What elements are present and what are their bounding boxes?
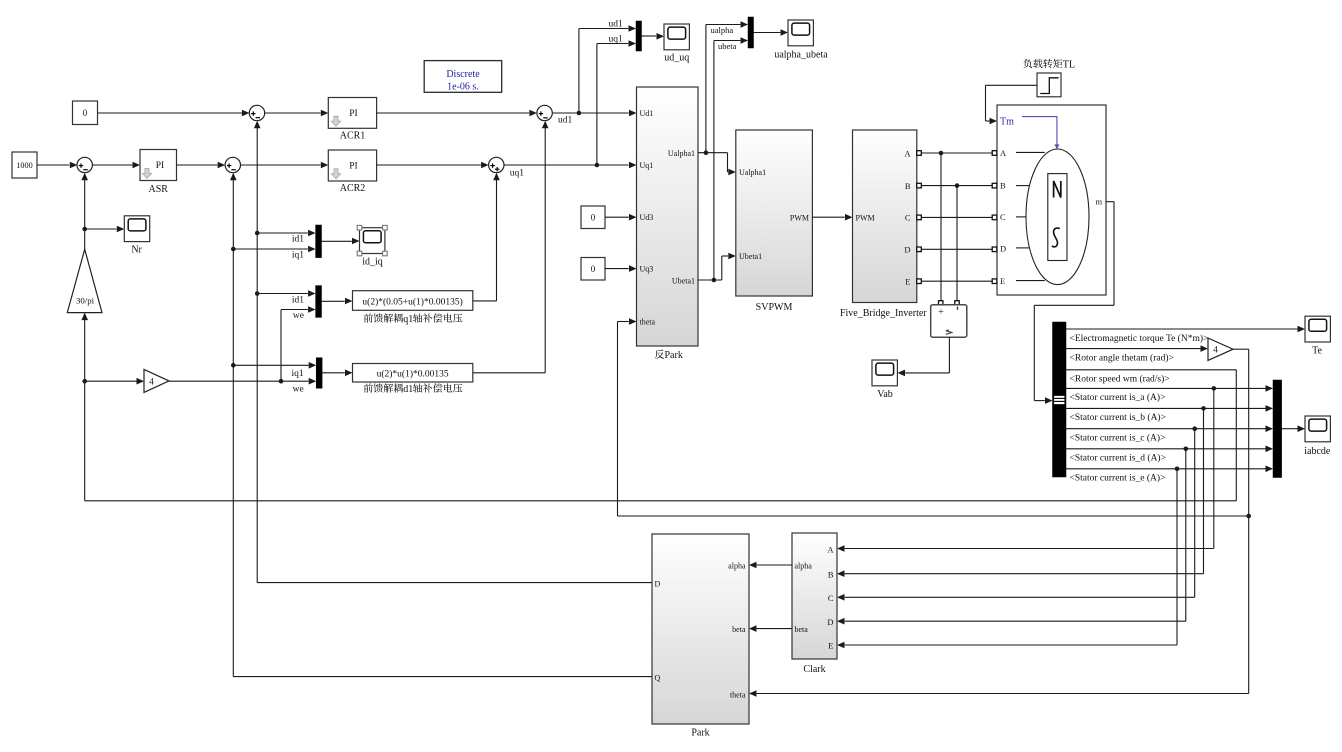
svg-text:Tm: Tm: [1000, 117, 1014, 128]
svg-text:Five_Bridge_Inverter: Five_Bridge_Inverter: [840, 308, 927, 319]
wire mux to scope ud_uq: [642, 33, 665, 40]
annotation Discrete 1e-06 s.: [424, 61, 502, 93]
svg-text:id1: id1: [292, 295, 304, 305]
wires inverter phases A-E to motor: [921, 153, 992, 281]
fcn block d-axis compensation: [353, 364, 473, 383]
svg-text:4: 4: [1213, 345, 1218, 355]
wire bus out stator current is_b: [837, 405, 1273, 577]
sum junction (id* - id): [249, 105, 264, 120]
wire Ubeta1 out: [698, 253, 736, 280]
svg-text:D: D: [1000, 243, 1006, 253]
subsystem Clark: [792, 533, 837, 675]
wire 1000 to speed sum: [37, 162, 77, 169]
svg-text:PI: PI: [156, 161, 164, 171]
svg-text:iabcde: iabcde: [1304, 446, 1331, 457]
wire fcn1 to sum uq1: [473, 173, 500, 301]
svg-text:ACR1: ACR1: [340, 131, 366, 142]
svg-text:A: A: [1000, 148, 1007, 158]
motor internal stubs: [1016, 152, 1045, 280]
bus signal labels: [1070, 333, 1209, 484]
constant block 1000 (speed reference): [12, 152, 37, 178]
subsystem Five_Bridge_Inverter: [840, 130, 927, 319]
node speed feedback branch to Nr: [82, 226, 124, 233]
mux for fcn q-axis: [316, 286, 322, 318]
svg-text:B: B: [905, 181, 911, 191]
svg-text:beta: beta: [732, 625, 746, 634]
sum junction ud1 (+ -): [537, 105, 573, 125]
svg-text:<Rotor angle thetam (rad)>: <Rotor angle thetam (rad)>: [1070, 352, 1174, 363]
scope id_iq (selected): [357, 225, 387, 267]
svg-text:ud1: ud1: [558, 116, 573, 126]
wire bus out Te: [1066, 326, 1305, 333]
PI controller ASR: [140, 150, 177, 196]
gain 4 (pole pairs, left): [144, 369, 169, 392]
node id1 to mux fcn q: [255, 290, 316, 305]
wire fcn2 to sum ud1: [473, 121, 549, 373]
wire 30/pi to speed sum: [81, 173, 88, 250]
wire Park Q output feedback (iq1): [230, 173, 652, 677]
svg-text:+: +: [938, 307, 944, 318]
svg-text:Uq1: Uq1: [640, 161, 654, 170]
svg-text:TL: TL: [1063, 59, 1075, 70]
svg-text:0: 0: [83, 108, 88, 118]
wire Ualpha1 out: [698, 153, 736, 176]
bus selector: [1053, 322, 1067, 477]
magnet N/S bar: [1048, 174, 1067, 261]
node theta branch to invPark: [618, 318, 1251, 518]
constant block 0 (d-axis current reference): [73, 101, 98, 125]
node we branch up to q-axis mux: [279, 306, 316, 383]
node iq1 to mux fcn d: [231, 362, 316, 379]
svg-text:D: D: [827, 617, 833, 627]
wire sum to ASR: [92, 162, 140, 169]
subsystem SVPWM: [736, 130, 813, 313]
svg-text:Ubeta1: Ubeta1: [739, 252, 762, 261]
wire 0 to Ud3: [605, 214, 637, 221]
svg-text:alpha: alpha: [795, 562, 813, 571]
constant 0 for Ud3: [581, 206, 605, 229]
svg-text:C: C: [1000, 212, 1006, 222]
svg-text:B: B: [828, 569, 834, 579]
svg-text:Ualpha1: Ualpha1: [739, 168, 766, 177]
wire Clark beta to Park: [749, 625, 792, 632]
wire mux to fcn2: [322, 370, 352, 377]
svg-text:<Rotor speed wm (rad/s)>: <Rotor speed wm (rad/s)>: [1070, 374, 1170, 385]
node uq1 branch to mux: [595, 35, 636, 168]
svg-text:<Stator current is_b (A)>: <Stator current is_b (A)>: [1070, 412, 1166, 423]
svg-text:id1: id1: [292, 235, 304, 245]
label qiankui jieou d1: [364, 383, 463, 394]
svg-text:Clark: Clark: [803, 664, 825, 675]
motor block PMSM: [997, 105, 1106, 295]
svg-text:Te: Te: [1312, 346, 1322, 357]
wire bus out stator current is_d: [837, 446, 1273, 625]
wire ASR to sum acr2: [177, 162, 226, 169]
svg-text:0: 0: [591, 213, 596, 223]
svg-text:Vab: Vab: [877, 389, 893, 400]
svg-text:0: 0: [591, 264, 596, 274]
svg-text:<Stator current is_c (A)>: <Stator current is_c (A)>: [1070, 433, 1166, 444]
wire motor m output to bus selector: [1034, 202, 1114, 404]
svg-text:Uq3: Uq3: [640, 265, 654, 274]
svg-text:<Stator current is_d (A)>: <Stator current is_d (A)>: [1070, 453, 1166, 464]
svg-text:PWM: PWM: [856, 213, 875, 222]
svg-text:D: D: [904, 245, 910, 255]
mux id_iq: [316, 225, 322, 258]
svg-text:ubeta: ubeta: [718, 41, 737, 51]
node iq1 to mux id_iq: [231, 246, 316, 261]
sum junction speed error (+ -): [77, 157, 92, 172]
svg-text:<Electromagnetic torque Te (N*: <Electromagnetic torque Te (N*m)>: [1070, 333, 1209, 344]
wire step to motor Tm: [986, 85, 1038, 124]
svg-text:iq1: iq1: [292, 251, 304, 261]
scope Nr: [124, 216, 149, 256]
svg-text:Q: Q: [655, 674, 661, 683]
wire bus out stator current is_e: [837, 466, 1273, 649]
scope Vab (flipped): [872, 360, 897, 400]
wire ACR1 to sum ud1: [377, 110, 537, 117]
node ud1 branch to mux: [577, 20, 636, 116]
svg-text:q1: q1: [403, 314, 413, 325]
wire gain4 theta distribution: [749, 349, 1249, 697]
svg-text:ualpha_ubeta: ualpha_ubeta: [774, 50, 828, 61]
svg-text:E: E: [1000, 276, 1005, 286]
svg-text:4: 4: [149, 376, 154, 386]
svg-text:1000: 1000: [16, 161, 32, 170]
svg-text:1e-06 s.: 1e-06 s.: [447, 82, 479, 93]
svg-text:d1: d1: [403, 384, 413, 395]
gain 30/pi: [67, 249, 102, 312]
mux for fcn d-axis: [316, 358, 322, 389]
node tap phase B for Vab: [955, 183, 960, 300]
mux ud_uq: [636, 21, 642, 51]
wire Park D output feedback (id1): [254, 121, 652, 583]
svg-text:<Stator current is_a (A)>: <Stator current is_a (A)>: [1070, 392, 1166, 403]
motor rotor ellipse: [1026, 149, 1089, 285]
svg-text:30/pi: 30/pi: [76, 296, 95, 306]
svg-text:PI: PI: [349, 109, 357, 119]
wire sum to ACR1: [265, 110, 329, 117]
svg-text:Ud1: Ud1: [640, 109, 654, 118]
wire sum to ACR2: [241, 162, 329, 169]
svg-text:we: we: [293, 385, 304, 395]
wire bus out stator current is_a: [837, 385, 1273, 552]
svg-text:C: C: [828, 593, 834, 603]
wire ACR2 to sum uq1: [377, 162, 489, 169]
svg-text:C: C: [905, 213, 911, 223]
sum junction uq1 (+ +): [489, 157, 525, 178]
svg-text:E: E: [905, 276, 910, 286]
node id1 to mux id_iq: [255, 230, 316, 245]
wire mux to scope id_iq: [322, 238, 360, 245]
svg-text:u(2)*u(1)*0.00135: u(2)*u(1)*0.00135: [377, 369, 449, 380]
svg-text:alpha: alpha: [728, 562, 746, 571]
scope ualpha_ubeta: [774, 20, 828, 61]
PI controller ACR1: [328, 98, 376, 142]
svg-text:beta: beta: [795, 625, 809, 634]
wire sum ud1 to invPark Ud1: [552, 110, 636, 117]
svg-text:E: E: [828, 641, 833, 651]
svg-text:A: A: [827, 545, 834, 555]
wire bus out stator current is_c: [837, 425, 1273, 600]
fcn block q-axis compensation: [353, 291, 473, 311]
wire 0 to Uq3: [605, 265, 637, 272]
mux ualpha_ubeta: [748, 17, 754, 48]
svg-text:uq1: uq1: [609, 35, 624, 45]
svg-text:D: D: [655, 580, 661, 589]
svg-text:theta: theta: [640, 318, 656, 327]
node ualpha branch up: [704, 21, 748, 155]
svg-text:B: B: [1000, 180, 1006, 190]
svg-text:we: we: [293, 311, 304, 321]
svg-text:Park: Park: [665, 350, 683, 361]
motor input ports: [992, 151, 997, 284]
label 反Park: [655, 350, 683, 361]
svg-text:id_iq: id_iq: [362, 257, 383, 268]
wire gain4 to mux we (d-axis): [169, 378, 316, 395]
svg-text:iq1: iq1: [292, 369, 304, 379]
scope iabcde: [1304, 416, 1331, 457]
svg-text:m: m: [1096, 197, 1103, 207]
label 负载转矩TL: [1023, 59, 1075, 70]
svg-text:Discrete: Discrete: [446, 69, 480, 80]
svg-text:uq1: uq1: [510, 169, 525, 179]
wire Vab to scope: [898, 337, 950, 376]
svg-text:u(2)*(0.05+u(1)*0.00135): u(2)*(0.05+u(1)*0.00135): [362, 297, 462, 308]
sum junction (iq* - iq): [225, 157, 240, 172]
gain 4 (right, theta): [1208, 338, 1233, 360]
svg-text:<Stator current is_e (A)>: <Stator current is_e (A)>: [1070, 473, 1166, 484]
svg-text:ASR: ASR: [148, 184, 168, 195]
wire mux to scope iabcde: [1282, 425, 1305, 432]
svg-text:theta: theta: [730, 691, 746, 700]
svg-text:Ualpha1: Ualpha1: [668, 149, 695, 158]
node ubeta branch up: [712, 37, 748, 282]
wire SVPWM PWM to inverter: [812, 214, 852, 221]
scope ud_uq: [664, 24, 689, 64]
mux iabcde: [1273, 380, 1282, 478]
svg-text:A: A: [904, 149, 911, 159]
svg-text:SVPWM: SVPWM: [756, 302, 793, 313]
wire bus out thetam to gain: [1066, 345, 1208, 352]
wire mux to fcn1: [322, 298, 353, 305]
constant 0 for Uq3: [581, 258, 605, 281]
wire bus out wm feedback: [81, 313, 1236, 501]
svg-text:ualpha: ualpha: [711, 25, 734, 35]
inverter output ports: [917, 151, 922, 284]
wire mux to scope ualpha_ubeta: [754, 29, 789, 36]
scope Te: [1305, 316, 1330, 356]
subsystem Park: [652, 534, 749, 739]
subsystem 反Park: [637, 87, 699, 346]
node wm branch to gain4: [82, 378, 144, 385]
svg-text:Park: Park: [691, 728, 709, 739]
node tap phase A for Vab: [939, 151, 944, 301]
svg-text:ud_uq: ud_uq: [664, 53, 689, 64]
svg-text:ud1: ud1: [609, 20, 624, 30]
voltage measurement Vab block: [931, 301, 967, 338]
svg-text:Ubeta1: Ubeta1: [672, 276, 695, 285]
svg-text:PI: PI: [349, 162, 357, 172]
svg-text:ACR2: ACR2: [340, 183, 366, 194]
svg-text:Nr: Nr: [131, 245, 142, 256]
wire sum uq1 to invPark Uq1: [504, 162, 637, 169]
blue Tm internal wire: [1022, 117, 1059, 150]
svg-text:PWM: PWM: [790, 213, 809, 222]
wire 0 const to sum: [98, 110, 250, 117]
step block load torque TL: [1037, 73, 1061, 97]
wire Clark alpha to Park: [749, 562, 792, 569]
label qiankui jieou q1: [364, 313, 463, 324]
PI controller ACR2: [328, 150, 376, 194]
svg-text:Ud3: Ud3: [640, 213, 654, 222]
